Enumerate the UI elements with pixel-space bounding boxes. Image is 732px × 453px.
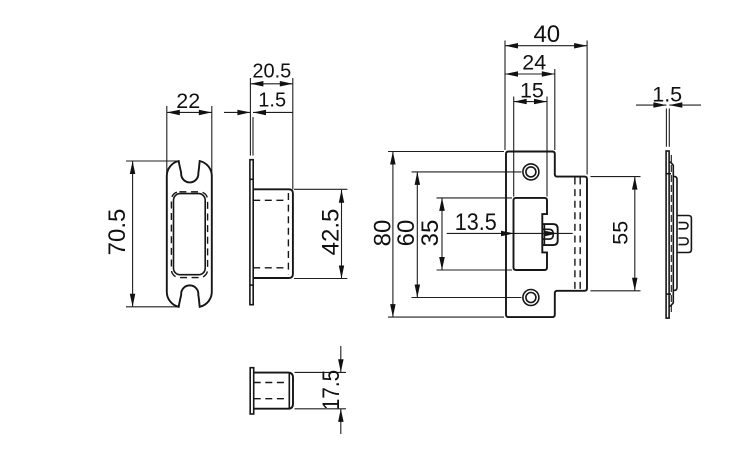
svg-text:17.5: 17.5 [318,370,345,410]
svg-text:42.5: 42.5 [318,209,345,256]
svg-text:13.5: 13.5 [455,209,497,236]
svg-text:35: 35 [417,220,444,247]
svg-text:22: 22 [176,89,200,113]
svg-text:40: 40 [533,21,560,48]
svg-text:24: 24 [522,51,546,75]
svg-text:15: 15 [520,79,544,103]
svg-text:20.5: 20.5 [252,61,291,83]
svg-text:1.5: 1.5 [258,90,286,112]
svg-text:70.5: 70.5 [104,209,131,256]
svg-text:55: 55 [609,221,633,245]
svg-text:1.5: 1.5 [652,83,682,107]
